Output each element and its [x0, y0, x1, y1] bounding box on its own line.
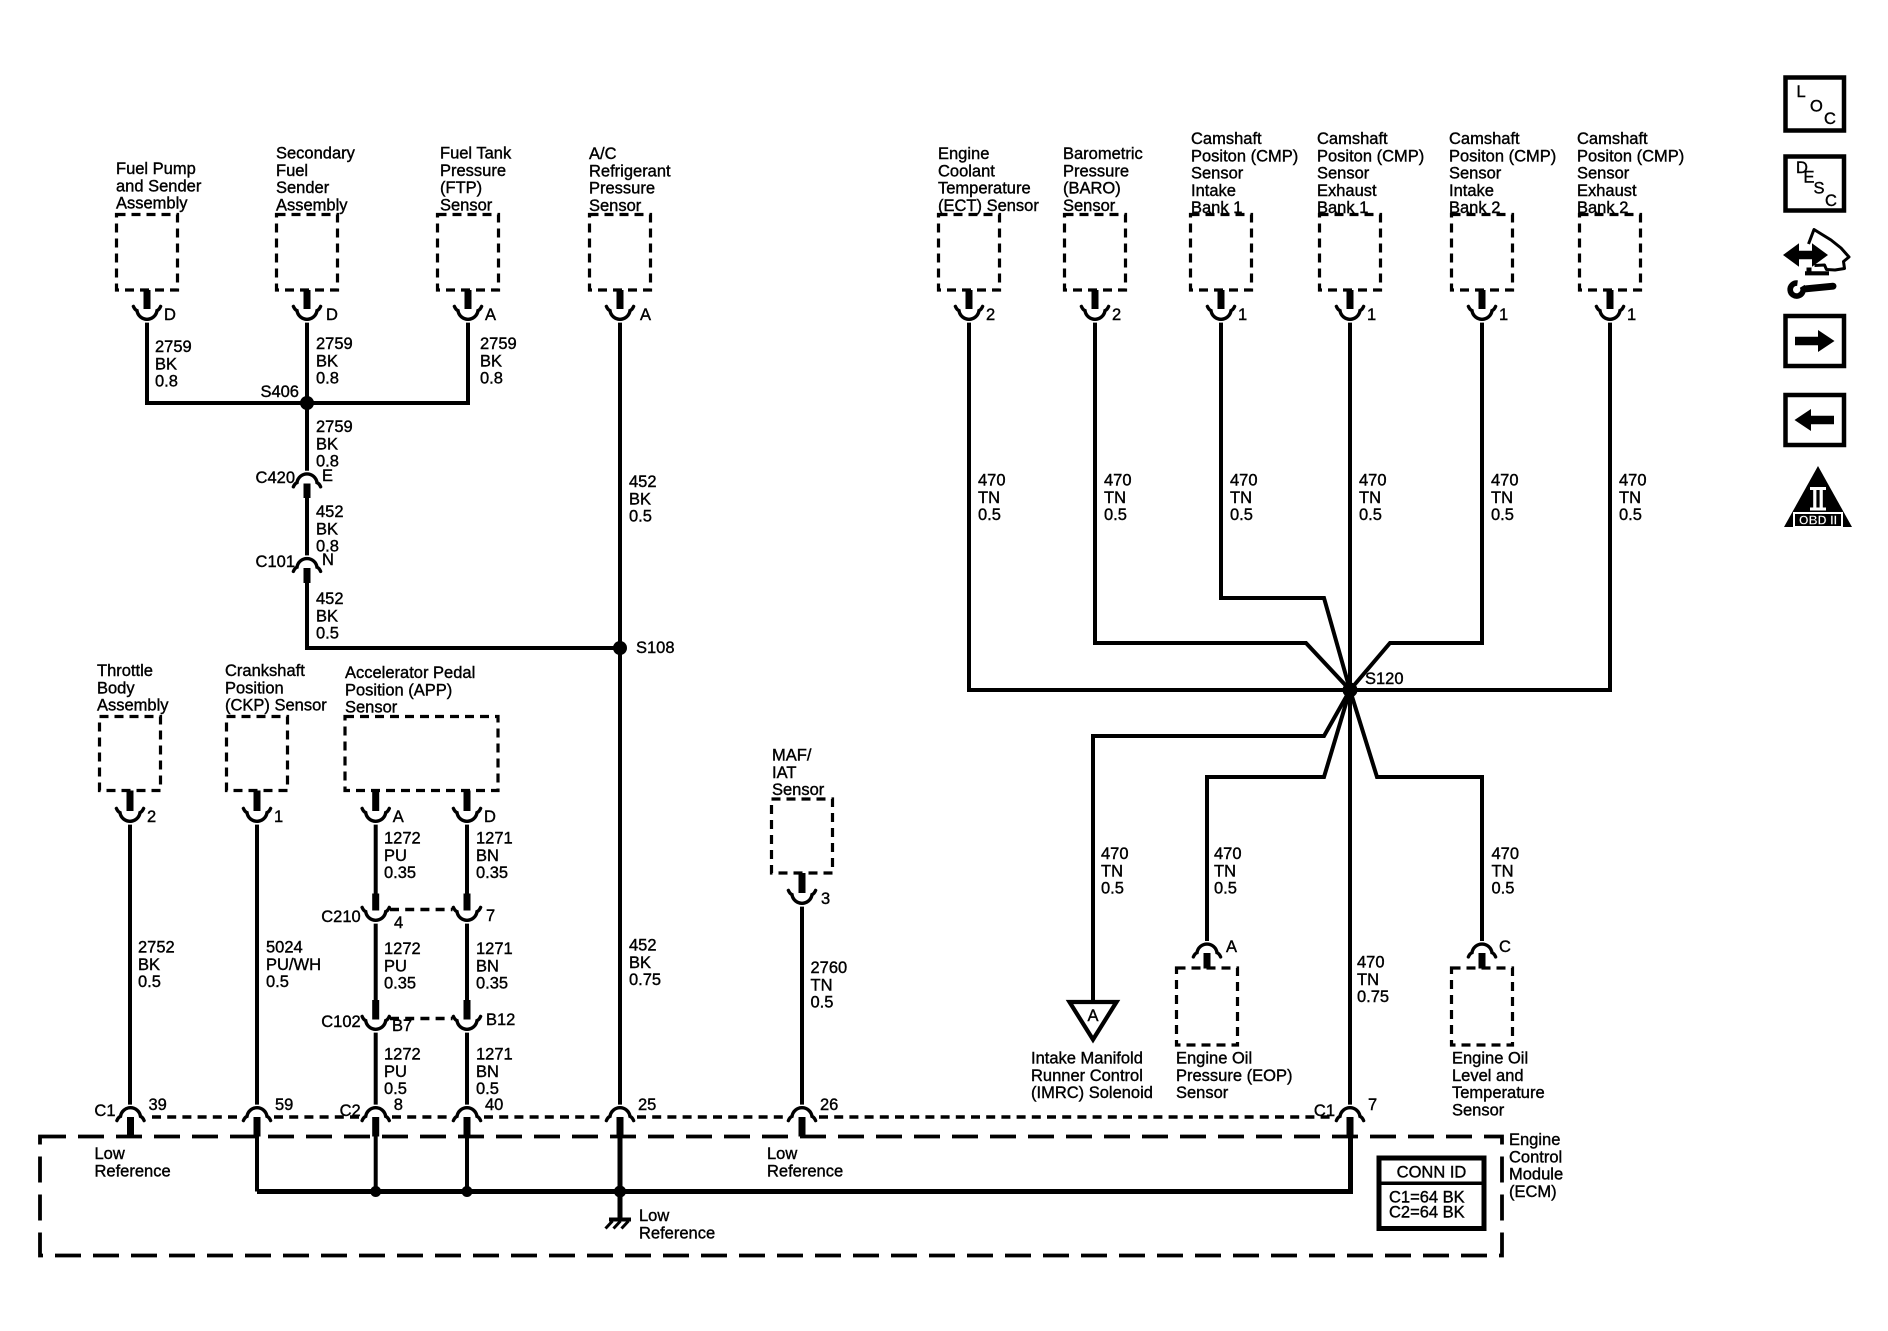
svg-text:Pressure: Pressure	[589, 180, 655, 198]
ECM pin 40	[453, 1096, 503, 1137]
svg-text:Reference: Reference	[639, 1224, 715, 1242]
svg-text:Engine Oil: Engine Oil	[1452, 1050, 1528, 1068]
svg-text:2752: 2752	[138, 939, 175, 957]
svg-text:26: 26	[820, 1096, 838, 1114]
icon: wrench and double arrow	[1783, 230, 1849, 297]
svg-text:TN: TN	[1491, 489, 1513, 507]
svg-text:A: A	[1226, 938, 1237, 956]
wire 470 TN 0.5 from S120 to EOP sensor pin A	[1207, 690, 1350, 941]
ground: low reference chassis ground	[606, 1220, 632, 1229]
svg-text:Crankshaft: Crankshaft	[225, 662, 305, 680]
ECM pin 25	[606, 1096, 656, 1137]
svg-text:0.5: 0.5	[1492, 880, 1515, 898]
svg-text:0.5: 0.5	[1214, 880, 1237, 898]
component: Fuel Pump and Sender Assembly	[116, 160, 202, 290]
svg-text:470: 470	[1104, 472, 1132, 490]
svg-text:0.5: 0.5	[1491, 506, 1514, 524]
component: MAF/IAT Sensor	[772, 747, 833, 874]
pin 2 of Engine Coolant Temperature (ECT) Sensor	[955, 290, 995, 324]
svg-text:TN: TN	[1214, 862, 1236, 880]
node: bus junction at pin 40	[462, 1186, 473, 1197]
component: Secondary Fuel Sender Assembly	[276, 145, 356, 291]
svg-text:Intake: Intake	[1191, 182, 1236, 200]
svg-text:2: 2	[1112, 306, 1121, 324]
component: Fuel Tank Pressure (FTP) Sensor	[438, 145, 512, 291]
svg-text:5024: 5024	[266, 939, 303, 957]
svg-text:Sender: Sender	[276, 179, 330, 197]
icon: LOC box	[1786, 78, 1845, 131]
svg-text:BK: BK	[629, 954, 651, 972]
svg-text:S: S	[1814, 180, 1825, 198]
svg-text:Sensor: Sensor	[1063, 197, 1116, 215]
svg-text:7: 7	[1368, 1096, 1377, 1114]
svg-text:0.5: 0.5	[138, 973, 161, 991]
svg-text:BN: BN	[476, 847, 499, 865]
svg-text:Assembly: Assembly	[116, 195, 188, 213]
splice S406	[260, 383, 314, 410]
svg-text:Sensor: Sensor	[1191, 165, 1244, 183]
svg-text:0.8: 0.8	[316, 370, 339, 388]
svg-text:D: D	[326, 306, 338, 324]
wire: ECM internal from pin 25 to ground	[618, 1137, 623, 1220]
pin 1 of Camshaft Position (CMP) Sensor Exhaust Bank 2	[1596, 290, 1636, 324]
wire: ECM internal from pin 8 to ground bus	[374, 1137, 378, 1192]
svg-text:C210: C210	[321, 908, 360, 926]
svg-text:C2=64 BK: C2=64 BK	[1389, 1204, 1465, 1222]
svg-text:0.5: 0.5	[629, 508, 652, 526]
svg-text:E: E	[322, 467, 333, 485]
svg-text:BK: BK	[138, 956, 160, 974]
svg-text:PU/WH: PU/WH	[266, 956, 321, 974]
svg-text:0.35: 0.35	[384, 864, 416, 882]
svg-text:Camshaft: Camshaft	[1191, 130, 1262, 148]
wire 470 TN 0.5 from CMP exhaust bank 1 to S120	[1350, 323, 1387, 690]
svg-text:CONN ID: CONN ID	[1397, 1164, 1467, 1182]
svg-text:Low: Low	[95, 1145, 125, 1163]
svg-text:452: 452	[629, 937, 657, 955]
wire: horizontal splice bus at S406	[145, 401, 470, 405]
svg-text:2760: 2760	[811, 959, 848, 977]
component: Camshaft Position (CMP) Sensor Intake Bank 2	[1449, 130, 1556, 290]
svg-text:1: 1	[1238, 306, 1247, 324]
component: Engine Oil Pressure (EOP) Sensor	[1176, 968, 1292, 1102]
svg-text:470: 470	[1101, 845, 1129, 863]
svg-text:0.75: 0.75	[1357, 988, 1389, 1006]
ECM connector C1 pin 39	[94, 1096, 166, 1137]
svg-text:1: 1	[1499, 306, 1508, 324]
pin D of APP Sensor	[453, 791, 496, 827]
svg-text:PU: PU	[384, 847, 407, 865]
wire 452 BK 0.5 from A/C sensor pin A to S108	[620, 323, 657, 648]
component: Engine Coolant Temperature (ECT) Sensor	[938, 145, 1039, 290]
svg-text:BK: BK	[316, 520, 338, 538]
svg-text:C: C	[1499, 938, 1511, 956]
svg-text:0.5: 0.5	[978, 506, 1001, 524]
svg-text:TN: TN	[1492, 862, 1514, 880]
svg-text:1272: 1272	[384, 1046, 421, 1064]
svg-text:Positon (CMP): Positon (CMP)	[1317, 147, 1424, 165]
wire 2759 BK 0.8 from fuel pump pin D to S406	[147, 323, 192, 403]
svg-text:3: 3	[821, 890, 830, 908]
svg-text:Temperature: Temperature	[938, 180, 1031, 198]
component: Crankshaft Position (CKP) Sensor	[225, 662, 327, 791]
svg-text:TN: TN	[1357, 971, 1379, 989]
svg-text:Engine: Engine	[1509, 1131, 1560, 1149]
label: Intake Manifold Runner Control (IMRC) Solenoid	[1031, 1050, 1153, 1103]
svg-text:C102: C102	[321, 1013, 360, 1031]
svg-text:C1: C1	[94, 1102, 115, 1120]
svg-text:Accelerator Pedal: Accelerator Pedal	[345, 664, 475, 682]
svg-text:C420: C420	[256, 469, 295, 487]
wire 1272 PU 0.35 from C210 to C102	[376, 924, 421, 1004]
svg-text:A: A	[485, 306, 496, 324]
wire 470 TN 0.5 from CMP intake bank 2 to S120	[1350, 323, 1519, 690]
svg-text:Module: Module	[1509, 1166, 1563, 1184]
svg-text:(FTP): (FTP)	[440, 179, 482, 197]
svg-text:Exhaust: Exhaust	[1317, 182, 1377, 200]
svg-text:(BARO): (BARO)	[1063, 180, 1121, 198]
svg-text:B12: B12	[486, 1011, 515, 1029]
wire 5024 PU/WH 0.5 from CKP sensor to ECM pin 59	[257, 825, 321, 1105]
svg-text:25: 25	[638, 1096, 656, 1114]
wire 2759 BK 0.8 from FTP sensor pin A to S406	[468, 323, 517, 403]
wire 470 TN 0.5 from BARO sensor to S120	[1095, 323, 1350, 690]
wire 2759 BK 0.8 from secondary sender pin D to S406	[307, 323, 353, 403]
svg-text:Sensor: Sensor	[1317, 165, 1370, 183]
pin C of Engine Oil Level and Temperature Sensor	[1468, 938, 1511, 969]
wire 470 TN 0.75 from S120 to ECM pin 7	[1350, 690, 1389, 1105]
svg-text:OBD II: OBD II	[1799, 514, 1837, 528]
svg-text:0.35: 0.35	[384, 975, 416, 993]
svg-text:470: 470	[1359, 472, 1387, 490]
wire 470 TN 0.5 from ECT sensor to S120	[969, 323, 1350, 690]
wire 452 BK 0.8 from C420 to C101	[307, 498, 344, 556]
svg-text:470: 470	[1230, 472, 1258, 490]
svg-text:TN: TN	[811, 976, 833, 994]
svg-text:0.5: 0.5	[1101, 880, 1124, 898]
pin A of FTP Sensor	[454, 290, 496, 324]
svg-text:O: O	[1810, 98, 1823, 116]
svg-text:Fuel Pump: Fuel Pump	[116, 160, 196, 178]
svg-text:Coolant: Coolant	[938, 162, 995, 180]
svg-text:Camshaft: Camshaft	[1577, 130, 1648, 148]
wire 1272 PU 0.5 from C102 to ECM pin 8	[376, 1033, 421, 1105]
svg-text:BK: BK	[316, 352, 338, 370]
svg-text:BN: BN	[476, 957, 499, 975]
svg-text:D: D	[484, 808, 496, 826]
pin 1 of Camshaft Position (CMP) Sensor Intake Bank 2	[1468, 290, 1508, 324]
svg-text:452: 452	[629, 473, 657, 491]
wire 470 TN 0.5 from S120 to IMRC solenoid	[1093, 690, 1350, 1004]
svg-text:A: A	[393, 808, 404, 826]
svg-text:Sensor: Sensor	[589, 197, 642, 215]
svg-text:PU: PU	[384, 957, 407, 975]
svg-text:0.8: 0.8	[155, 373, 178, 391]
svg-text:0.5: 0.5	[1230, 506, 1253, 524]
svg-text:Assembly: Assembly	[276, 196, 348, 214]
component: A/C Refrigerant Pressure Sensor	[589, 145, 671, 290]
svg-text:470: 470	[1492, 845, 1520, 863]
wire 2760 TN 0.5 from MAF/IAT sensor to ECM pin 26	[802, 907, 847, 1105]
svg-text:C: C	[1824, 110, 1836, 128]
svg-text:S120: S120	[1365, 670, 1404, 688]
wire 470 TN 0.5 from S120 to Engine Oil Level and Temperature Sensor pin C	[1350, 690, 1519, 941]
svg-text:MAF/: MAF/	[772, 747, 812, 765]
label: Low Reference at ground	[639, 1207, 715, 1242]
label: Low Reference at ECM pin 26	[767, 1145, 843, 1180]
svg-text:2759: 2759	[480, 335, 517, 353]
svg-text:Positon (CMP): Positon (CMP)	[1191, 147, 1298, 165]
svg-text:Sensor: Sensor	[345, 699, 398, 717]
pin 1 of CKP Sensor	[243, 791, 283, 827]
wire 470 TN 0.5 from CMP intake bank 1 to S120	[1221, 323, 1350, 690]
svg-text:0.35: 0.35	[476, 864, 508, 882]
pin 1 of Camshaft Position (CMP) Sensor Intake Bank 1	[1207, 290, 1247, 324]
svg-text:A: A	[1087, 1007, 1098, 1025]
svg-text:452: 452	[316, 590, 344, 608]
table: CONN ID (C1=64 BK, C2=64 BK)	[1379, 1158, 1484, 1229]
svg-text:452: 452	[316, 503, 344, 521]
svg-text:Sensor: Sensor	[1577, 165, 1630, 183]
svg-text:Engine: Engine	[938, 145, 989, 163]
svg-text:Position: Position	[225, 679, 284, 697]
svg-text:0.5: 0.5	[811, 994, 834, 1012]
svg-text:Sensor: Sensor	[1176, 1084, 1229, 1102]
svg-text:IAT: IAT	[772, 764, 796, 782]
svg-text:TN: TN	[1104, 489, 1126, 507]
wire 1271 BN 0.35 from APP pin D to C210 pin 7	[467, 825, 513, 895]
svg-text:Sensor: Sensor	[772, 781, 825, 799]
wire 452 BK 0.75 from S108 to ECM pin 25	[620, 648, 661, 1105]
svg-text:S406: S406	[260, 383, 299, 401]
svg-text:0.35: 0.35	[476, 975, 508, 993]
splice S108	[613, 639, 675, 657]
svg-text:TN: TN	[978, 489, 1000, 507]
pin 2 of Barometric Pressure (BARO) Sensor	[1081, 290, 1121, 324]
connector C210 pin 7	[453, 894, 495, 926]
wire 1272 PU 0.35 from APP pin A to C210 pin 4	[376, 825, 421, 895]
svg-text:39: 39	[149, 1096, 167, 1114]
svg-text:Camshaft: Camshaft	[1317, 130, 1388, 148]
svg-text:BK: BK	[480, 352, 502, 370]
svg-text:2759: 2759	[316, 418, 353, 436]
svg-text:TN: TN	[1101, 862, 1123, 880]
wire 2759 BK 0.8 from S406 to C420	[307, 403, 353, 471]
node: bus junction at pin 8	[370, 1186, 381, 1197]
wire: ECM internal from pin 40 to ground bus	[465, 1137, 469, 1192]
svg-text:40: 40	[485, 1096, 503, 1114]
svg-text:0.5: 0.5	[316, 625, 339, 643]
svg-text:0.5: 0.5	[1619, 506, 1642, 524]
svg-text:BK: BK	[155, 355, 177, 373]
label: Low Reference at ECM pin 39	[95, 1145, 171, 1180]
svg-text:7: 7	[486, 907, 495, 925]
pin 1 of Camshaft Position (CMP) Sensor Exhaust Bank 1	[1336, 290, 1376, 324]
svg-text:Barometric: Barometric	[1063, 145, 1143, 163]
component: Throttle Body Assembly	[97, 662, 169, 791]
svg-text:59: 59	[275, 1096, 293, 1114]
ECM connector C2 pin 8	[340, 1096, 403, 1137]
svg-text:(IMRC) Solenoid: (IMRC) Solenoid	[1031, 1084, 1153, 1102]
svg-text:2: 2	[986, 306, 995, 324]
connector C102 pin B7	[321, 1000, 412, 1035]
pin A of A/C Refrigerant Pressure Sensor	[606, 290, 651, 324]
wire 470 TN 0.5 from CMP exhaust bank 2 to S120	[1350, 323, 1647, 690]
svg-text:Assembly: Assembly	[97, 697, 169, 715]
svg-text:Camshaft: Camshaft	[1449, 130, 1520, 148]
icon: DESC box	[1786, 157, 1845, 211]
svg-text:A/C: A/C	[589, 145, 617, 163]
svg-text:TN: TN	[1359, 489, 1381, 507]
svg-text:TN: TN	[1230, 489, 1252, 507]
svg-text:Position (APP): Position (APP)	[345, 681, 452, 699]
connector C420 pin E	[256, 467, 333, 498]
pin 2 of Throttle Body Assembly	[116, 791, 156, 827]
svg-text:0.75: 0.75	[629, 971, 661, 989]
svg-text:Reference: Reference	[95, 1162, 171, 1180]
svg-text:Exhaust: Exhaust	[1577, 182, 1637, 200]
svg-text:C101: C101	[256, 553, 295, 571]
icon: back arrow box	[1786, 395, 1845, 445]
svg-text:1: 1	[1627, 306, 1636, 324]
icon: forward arrow box	[1786, 316, 1845, 366]
svg-text:BK: BK	[316, 435, 338, 453]
svg-text:470: 470	[1619, 472, 1647, 490]
svg-text:2759: 2759	[316, 335, 353, 353]
component: Camshaft Position (CMP) Sensor Exhaust Bank 1	[1317, 130, 1424, 290]
wire: C210 in-line connector dashed link	[390, 908, 453, 912]
svg-text:4: 4	[394, 914, 403, 932]
svg-text:S108: S108	[636, 639, 675, 657]
connector C210 pin 4	[321, 894, 403, 933]
svg-text:L: L	[1797, 83, 1806, 101]
svg-text:N: N	[322, 551, 334, 569]
svg-text:Positon (CMP): Positon (CMP)	[1577, 147, 1684, 165]
svg-text:Runner Control: Runner Control	[1031, 1067, 1143, 1085]
wire: dashed low reference bus across ECM pins	[152, 1115, 1335, 1119]
svg-text:BK: BK	[316, 607, 338, 625]
wire 452 BK 0.5 from C101 to S108	[307, 583, 620, 648]
label: Engine Control Module (ECM)	[1509, 1131, 1563, 1201]
svg-text:1: 1	[274, 808, 283, 826]
node: bus junction at pin 25	[614, 1186, 626, 1198]
wire: C102 in-line connector dashed link	[390, 1017, 453, 1021]
svg-text:470: 470	[1214, 845, 1242, 863]
svg-text:0.5: 0.5	[1359, 506, 1382, 524]
wire: ECM internal ground bus	[257, 1137, 1351, 1192]
svg-text:Pressure: Pressure	[1063, 162, 1129, 180]
svg-text:Reference: Reference	[767, 1162, 843, 1180]
pin A of APP Sensor	[362, 791, 404, 827]
svg-text:470: 470	[1357, 954, 1385, 972]
svg-text:Pressure: Pressure	[440, 162, 506, 180]
svg-text:A: A	[640, 306, 651, 324]
svg-text:(ECT) Sensor: (ECT) Sensor	[938, 197, 1039, 215]
svg-text:2759: 2759	[155, 338, 192, 356]
svg-text:Fuel Tank: Fuel Tank	[440, 145, 512, 163]
svg-text:1271: 1271	[476, 940, 513, 958]
svg-text:Low: Low	[639, 1207, 669, 1225]
svg-text:8: 8	[394, 1096, 403, 1114]
svg-text:Low: Low	[767, 1145, 797, 1163]
connector C101 pin N	[256, 551, 334, 583]
svg-text:(CKP) Sensor: (CKP) Sensor	[225, 697, 327, 715]
svg-text:and Sender: and Sender	[116, 177, 202, 195]
svg-text:470: 470	[1491, 472, 1519, 490]
svg-text:C: C	[1825, 192, 1837, 210]
svg-text:Temperature: Temperature	[1452, 1084, 1545, 1102]
svg-text:(ECM): (ECM)	[1509, 1183, 1557, 1201]
component: Engine Oil Level and Temperature Sensor	[1452, 968, 1545, 1119]
svg-text:Fuel: Fuel	[276, 162, 308, 180]
pin D of Secondary Fuel Sender Assembly	[293, 290, 338, 324]
svg-text:0.5: 0.5	[266, 973, 289, 991]
wire: ECM internal low reference from pin 59 to ground bus	[255, 1137, 259, 1192]
component: Engine Control Module (ECM) box	[40, 1137, 1502, 1256]
svg-text:Intake Manifold: Intake Manifold	[1031, 1050, 1143, 1068]
svg-text:1271: 1271	[476, 1046, 513, 1064]
component: Camshaft Position (CMP) Sensor Intake Bank 1	[1191, 130, 1299, 290]
svg-text:TN: TN	[1619, 489, 1641, 507]
svg-text:Control: Control	[1509, 1148, 1562, 1166]
pin A of Engine Oil Pressure (EOP) Sensor	[1193, 938, 1237, 969]
svg-text:Pressure (EOP): Pressure (EOP)	[1176, 1067, 1292, 1085]
pin D of Fuel Pump and Sender Assembly	[133, 290, 176, 324]
svg-text:Sensor: Sensor	[440, 196, 493, 214]
svg-text:1272: 1272	[384, 830, 421, 848]
component: Barometric Pressure (BARO) Sensor	[1063, 145, 1143, 290]
svg-text:Intake: Intake	[1449, 182, 1494, 200]
svg-text:470: 470	[978, 472, 1006, 490]
svg-text:D: D	[164, 306, 176, 324]
svg-text:1272: 1272	[384, 940, 421, 958]
ECM pin 59	[243, 1096, 293, 1137]
connector C102 pin B12	[453, 1000, 515, 1029]
component: Accelerator Pedal Position (APP) Sensor	[345, 664, 498, 791]
svg-text:PU: PU	[384, 1063, 407, 1081]
svg-text:Sensor: Sensor	[1449, 165, 1502, 183]
wire 2752 BK 0.5 from throttle body to ECM pin 39	[130, 825, 175, 1105]
svg-text:Engine Oil: Engine Oil	[1176, 1050, 1252, 1068]
svg-text:0.8: 0.8	[480, 370, 503, 388]
svg-text:Positon (CMP): Positon (CMP)	[1449, 147, 1556, 165]
svg-text:1: 1	[1367, 306, 1376, 324]
wire 1271 BN 0.35 from C210 to C102	[467, 924, 513, 1004]
svg-text:BN: BN	[476, 1063, 499, 1081]
component: Camshaft Position (CMP) Sensor Exhaust Bank 2	[1577, 130, 1684, 290]
svg-text:Refrigerant: Refrigerant	[589, 162, 671, 180]
svg-text:2: 2	[147, 808, 156, 826]
icon: OBD II triangle	[1784, 466, 1852, 528]
splice S120	[1343, 670, 1404, 698]
svg-text:Body: Body	[97, 679, 135, 697]
wire 1271 BN 0.5 from C102 to ECM pin 40	[467, 1033, 513, 1105]
component: Intake Manifold Runner Control (IMRC) Solenoid terminal A	[1070, 1002, 1117, 1040]
svg-text:Secondary: Secondary	[276, 145, 356, 163]
ECM connector C1 pin 7	[1314, 1096, 1377, 1137]
svg-text:1271: 1271	[476, 830, 513, 848]
svg-text:Throttle: Throttle	[97, 662, 153, 680]
svg-text:0.5: 0.5	[1104, 506, 1127, 524]
pin 3 of MAF/IAT Sensor	[788, 873, 830, 908]
svg-text:BK: BK	[629, 490, 651, 508]
svg-text:Level and: Level and	[1452, 1067, 1524, 1085]
svg-text:Sensor: Sensor	[1452, 1101, 1505, 1119]
ECM pin 26	[788, 1096, 838, 1137]
